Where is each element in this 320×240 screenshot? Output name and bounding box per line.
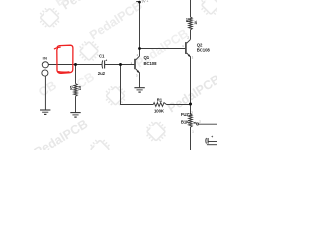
junction node C (Q1 collector / Q2 base)	[138, 47, 141, 50]
svg-text:IN: IN	[43, 57, 48, 61]
wire pot top	[190, 104, 192, 114]
watermark	[32, 0, 225, 164]
transistor Q2 collector	[187, 39, 191, 43]
supply stub	[136, 1, 139, 3]
svg-text:2u2: 2u2	[98, 71, 106, 76]
svg-text:R2: R2	[185, 18, 189, 22]
connector IN jack circles	[42, 62, 48, 68]
transistor Q1 emitter arrow	[137, 70, 140, 73]
junction node D (Q2 emitter / R1 / pot)	[189, 103, 192, 106]
svg-text:R5: R5	[69, 86, 73, 90]
transistor Q1 base bar	[134, 59, 136, 69]
ground (R5)	[70, 113, 80, 118]
transistor Q2 base bar	[185, 42, 187, 54]
transistor Q1 collector	[136, 2, 140, 60]
transistor Q2 emitter	[187, 53, 191, 104]
wire input to C1	[48, 64, 102, 66]
wire R5 to ground	[75, 96, 77, 112]
pin numbers	[131, 0, 202, 133]
svg-text:+: +	[147, 0, 149, 4]
wire jack sleeve to ground	[44, 76, 46, 110]
red annotation circle	[54, 45, 73, 73]
wire C1 to Q1 base	[105, 64, 135, 66]
wire R2 to Q2 collector	[190, 30, 192, 40]
transistor Q2 emitter arrow	[188, 54, 191, 57]
resistor R1	[153, 103, 166, 107]
wire R1 to pot node	[167, 104, 191, 106]
svg-text:+: +	[211, 135, 213, 139]
svg-text:Q1: Q1	[144, 55, 150, 60]
svg-text:FUZZ: FUZZ	[181, 112, 192, 117]
capacitor C1 left plate	[101, 60, 104, 68]
svg-text:1M: 1M	[78, 85, 82, 90]
wire node B down to R1 rail	[121, 65, 154, 105]
wire pot wiper to right edge	[199, 123, 217, 125]
capacitor C1 right plate	[104, 60, 106, 68]
resistor R2	[189, 0, 193, 30]
transistor Q1 emitter	[136, 69, 140, 87]
wire fragment bottom right	[207, 144, 217, 146]
svg-text:C1: C1	[99, 53, 105, 58]
junction node B (C1/Q1/R1)	[119, 63, 122, 66]
resistor R5	[74, 84, 78, 97]
junction node A (input/R5)	[74, 63, 77, 66]
capacitor C2 left plate (right edge, cut)	[205, 138, 208, 144]
potentiometer FUZZ resistive element	[189, 114, 193, 150]
svg-text:100K: 100K	[154, 108, 165, 113]
ground (IN jack)	[40, 110, 50, 114]
svg-text:BC108: BC108	[197, 48, 211, 53]
ground (Q1 emitter)	[134, 88, 144, 92]
svg-text:BC108: BC108	[144, 61, 158, 66]
svg-text:+: +	[105, 59, 107, 63]
potentiometer wiper arrow	[193, 122, 199, 125]
wire node A down to R5	[75, 65, 77, 84]
wire Q1 collector to Q2 base	[140, 48, 186, 50]
capacitor C2 right plate	[207, 138, 209, 144]
junction supply node	[138, 1, 141, 4]
svg-text:R1: R1	[157, 97, 163, 102]
wire C2 right	[208, 141, 217, 143]
svg-text:B1K: B1K	[181, 119, 190, 124]
